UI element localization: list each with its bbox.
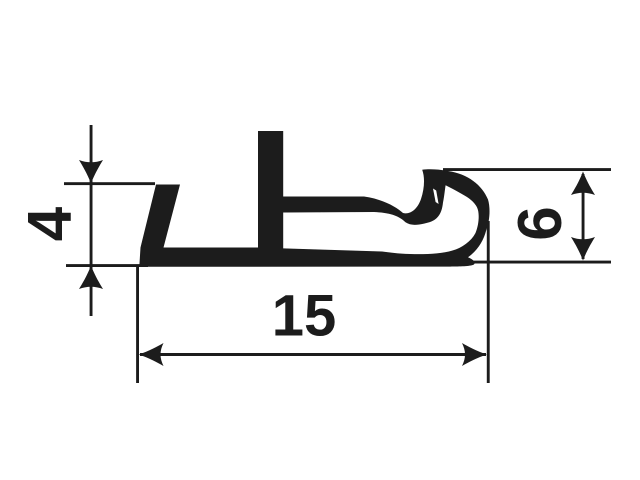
- extension line left of dimension 15: [136, 267, 139, 383]
- svg-text:4: 4: [16, 206, 85, 241]
- arrowhead up at top of 6: [571, 172, 595, 196]
- dimension line 4 (vertical): [90, 125, 93, 316]
- svg-text:15: 15: [272, 284, 337, 349]
- arrowhead down at top extension: [79, 160, 103, 184]
- seal profile cross-section body: [139, 131, 489, 267]
- extension line right of dimension 15: [487, 221, 490, 383]
- svg-text:6: 6: [506, 206, 575, 240]
- extension line bottom of dimension 4: [66, 264, 148, 267]
- arrowhead right on 15 line: [462, 343, 487, 366]
- extension line bottom of dimension 6: [452, 261, 611, 264]
- dimension line 15 (horizontal): [140, 353, 486, 356]
- extension line top of dimension 4: [64, 182, 155, 185]
- dimension line 6 (vertical): [582, 174, 585, 259]
- extension line top of dimension 6: [443, 168, 611, 171]
- arrowhead left on 15 line: [139, 343, 164, 366]
- arrowhead up at bottom extension: [79, 266, 103, 290]
- arrowhead down at bottom of 6: [571, 237, 595, 261]
